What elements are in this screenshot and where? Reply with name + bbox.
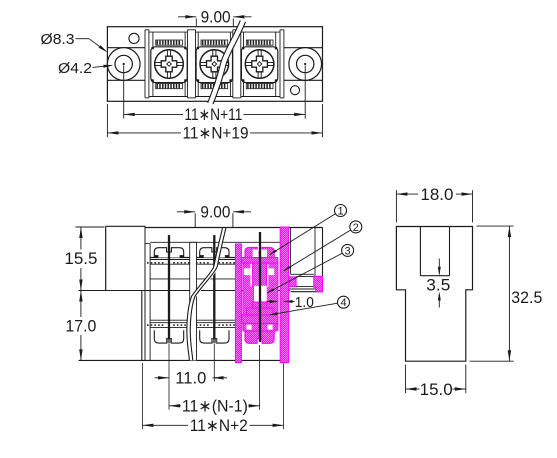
sectioned clamp yoke left side (magenta) bbox=[243, 263, 254, 330]
svg-text:9.00: 9.00 bbox=[201, 8, 231, 27]
front terminal 2 serrated plates bbox=[192, 263, 236, 325]
sectioned bottom clamp (magenta) bbox=[245, 331, 274, 343]
terminal 2 phillips cross recess bbox=[200, 50, 229, 79]
svg-text:11∗(N-1): 11∗(N-1) bbox=[182, 396, 248, 415]
svg-text:11∗N+11: 11∗N+11 bbox=[184, 105, 242, 124]
dimension 11*N+11 (top view) bbox=[124, 66, 306, 125]
svg-text:2: 2 bbox=[353, 222, 359, 234]
section screw center line (thick) bbox=[259, 232, 261, 342]
front view left end wall bbox=[145, 226, 150, 360]
front terminal 2 lower wire clamp bbox=[200, 330, 229, 343]
terminal 3 clamp square bbox=[241, 47, 277, 83]
front terminal 2 upper wire clamp bbox=[200, 248, 229, 258]
white window inside yoke bbox=[254, 286, 267, 302]
sectioned wall T2/T3 (magenta) bbox=[235, 244, 241, 363]
svg-text:15.5: 15.5 bbox=[64, 249, 97, 268]
top view: terminal block body outline bbox=[107, 27, 322, 102]
svg-text:1.0: 1.0 bbox=[295, 294, 314, 311]
top view break lines bbox=[208, 21, 246, 105]
right mounting ear hole bbox=[289, 48, 322, 81]
small pilot circle bottom-right bbox=[291, 86, 300, 95]
terminal 1 phillips cross recess bbox=[155, 50, 184, 79]
dimension 15.5 bbox=[64, 227, 104, 291]
terminal 1 serration combs bbox=[156, 40, 183, 89]
terminal 1 clamp square bbox=[151, 47, 187, 83]
svg-text:3: 3 bbox=[345, 245, 351, 257]
front terminal screw center lines (thick) bbox=[169, 235, 214, 339]
svg-text:11∗N+19: 11∗N+19 bbox=[183, 124, 249, 143]
terminal 3 serration combs bbox=[246, 40, 273, 89]
terminal 2 screw head circle bbox=[200, 50, 229, 79]
top view channel cage vertical lines bbox=[153, 32, 276, 96]
dimension 1.0 (wall thickness) bbox=[267, 294, 314, 311]
terminal 3 phillips cross recess bbox=[245, 50, 274, 79]
dimension 18.0 bbox=[396, 185, 472, 222]
callout balloon 1 bbox=[270, 205, 347, 255]
front view channel horizontal lines bbox=[150, 242, 282, 327]
side view body outline bbox=[396, 227, 472, 362]
terminal 2 serration combs bbox=[201, 40, 228, 89]
leader O4.2 bbox=[58, 60, 113, 77]
front view right end housing (behind section) bbox=[289, 228, 323, 292]
svg-text:32.5: 32.5 bbox=[511, 288, 542, 307]
svg-text:15.0: 15.0 bbox=[420, 380, 453, 399]
terminal 1 clamp square corner tabs bbox=[151, 47, 186, 82]
callout balloon 2 bbox=[284, 221, 362, 271]
terminal 2 clamp square bbox=[196, 47, 232, 83]
sectioned clamp yoke right side (magenta) bbox=[266, 263, 278, 330]
front terminal 1 serrated plates bbox=[147, 263, 191, 325]
sectioned screw head (magenta) bbox=[245, 247, 274, 257]
terminal 1 screw head circle bbox=[155, 50, 184, 79]
front view wall between T1 and T2 bbox=[190, 242, 197, 360]
svg-text:9.00: 9.00 bbox=[200, 203, 230, 222]
left mounting ear hole (O8.3 / O4.2) bbox=[107, 48, 140, 81]
terminal 3 clamp square corner tabs bbox=[242, 47, 277, 82]
svg-text:17.0: 17.0 bbox=[65, 316, 96, 335]
sectioned lower plate band (magenta) bbox=[242, 315, 278, 323]
terminal 3 screw head circle bbox=[245, 50, 274, 79]
small pilot circle top-left bbox=[129, 33, 139, 43]
top view channel horizontal lines bbox=[107, 32, 322, 96]
dimension 9.00 (top view) bbox=[178, 8, 252, 27]
extension lines below front view bbox=[142, 344, 283, 430]
dimension 11*N+19 (top view) bbox=[107, 104, 322, 143]
front terminal 1 lower wire clamp bbox=[154, 330, 183, 343]
sectioned screw threaded shank (magenta) bbox=[250, 263, 268, 287]
callout balloon 4 bbox=[270, 296, 350, 315]
svg-text:18.0: 18.0 bbox=[420, 185, 453, 204]
dimension 9.00 (front view) bbox=[177, 203, 251, 228]
dimension 32.5 bbox=[470, 226, 543, 361]
svg-text:11∗N+2: 11∗N+2 bbox=[190, 416, 248, 435]
dimension 15.0 bbox=[406, 365, 466, 399]
front terminal 1 upper wire clamp bbox=[154, 248, 183, 258]
dimension 11*(N-1) bbox=[169, 396, 260, 415]
terminal 2 clamp square corner tabs bbox=[197, 47, 232, 82]
sectioned clamp nut block (magenta) bbox=[246, 302, 273, 315]
sectioned upper serrated plate (magenta) bbox=[242, 258, 278, 264]
dimension 17.0 bbox=[65, 291, 96, 361]
sectioned end wall right (magenta) bbox=[280, 227, 289, 363]
top view separator walls bbox=[145, 30, 284, 98]
svg-text:Ø4.2: Ø4.2 bbox=[58, 60, 92, 77]
front view break lines bbox=[187, 228, 226, 360]
dimension 3.5 bbox=[426, 259, 450, 308]
svg-text:Ø8.3: Ø8.3 bbox=[41, 31, 75, 48]
sectioned mounting flange end block (magenta) bbox=[314, 276, 323, 291]
svg-text:1: 1 bbox=[337, 206, 343, 218]
front view housing outline bbox=[79, 226, 323, 360]
side view screw slot bbox=[420, 227, 449, 276]
callout balloon 3 bbox=[267, 244, 354, 293]
svg-text:11.0: 11.0 bbox=[175, 368, 206, 387]
sectioned lower serrated area (magenta) bbox=[244, 323, 276, 331]
dimension 11*N+2 bbox=[142, 416, 283, 435]
svg-text:3.5: 3.5 bbox=[426, 276, 450, 295]
svg-text:4: 4 bbox=[340, 297, 346, 309]
dimension 11.0 bbox=[155, 368, 228, 387]
sectioned mounting flange root (magenta) bbox=[289, 277, 297, 287]
leader O8.3 bbox=[41, 31, 108, 53]
